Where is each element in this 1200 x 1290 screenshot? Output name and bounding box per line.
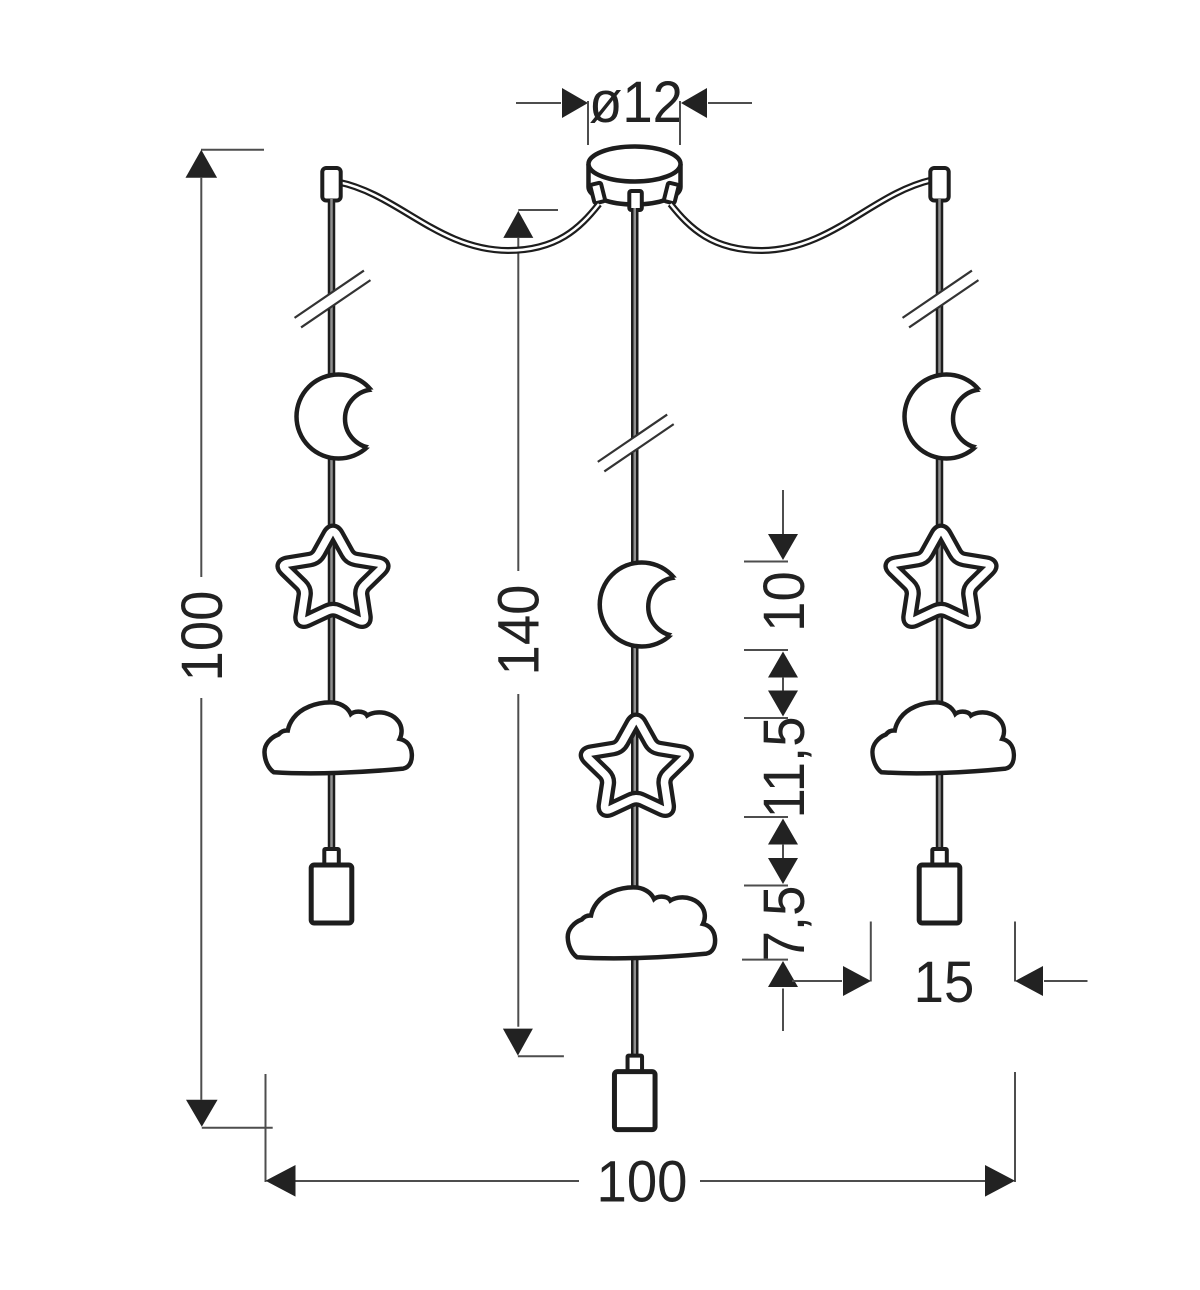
center pendant socket body: [614, 1072, 655, 1130]
dimension 11,5 tick top: [744, 717, 788, 719]
left pendant socket neck: [324, 849, 339, 865]
right pendant moon: [905, 375, 1012, 459]
left pendant socket body: [311, 865, 352, 923]
dimension 11,5 arrow bottom: [768, 819, 798, 845]
dimension 100 left arrow top: [186, 150, 218, 178]
right pendant star: [892, 531, 991, 621]
dimension 100 bottom extension line left: [265, 1074, 267, 1182]
dimension 140 arrow top: [503, 211, 533, 238]
dimension 100 left line lower: [200, 698, 202, 1100]
dimension 100 left arrow bottom: [186, 1100, 218, 1127]
dimension 100 bottom arrow left: [266, 1165, 296, 1197]
canopy center tube: [629, 191, 642, 210]
svg-text:ø12: ø12: [589, 69, 683, 134]
svg-text:11,5: 11,5: [751, 716, 816, 818]
dimension ø12 extension line left: [587, 101, 589, 145]
dimension 100 left tick bottom: [202, 1127, 273, 1129]
dimension 100 bottom text: [597, 1149, 688, 1214]
dimension 15 extension line right: [1014, 922, 1016, 982]
dimension ø12 line right: [708, 102, 752, 104]
left suspension wire: [338, 182, 599, 251]
left pendant cable grip: [322, 168, 340, 201]
dimension 100 left text: [169, 591, 234, 682]
dimension 140 tick top: [518, 209, 558, 211]
dimension ø12 text: [589, 69, 683, 134]
dimension chain line mid2: [782, 844, 784, 858]
left pendant cord upper: [328, 199, 336, 309]
dimension ø12 arrow left: [562, 88, 588, 118]
dimension 7,5 arrow top: [768, 858, 798, 884]
dimension 100 bottom line left: [296, 1180, 580, 1182]
svg-text:7,5: 7,5: [751, 886, 816, 962]
dimension 7,5 text: [751, 886, 816, 962]
canopy top ellipse: [589, 147, 681, 182]
svg-text:100: 100: [597, 1149, 688, 1214]
dimension ø12 arrow right: [681, 88, 707, 118]
center pendant star: [587, 720, 686, 810]
center pendant moon: [600, 563, 707, 647]
left pendant cloud: [264, 702, 411, 773]
center pendant socket neck: [628, 1056, 643, 1072]
dimension chain line mid1: [782, 677, 784, 691]
right pendant cord upper: [936, 199, 944, 309]
svg-text:100: 100: [169, 591, 234, 682]
dimension 140 text: [486, 585, 551, 676]
dimension 15 line right: [1044, 980, 1088, 982]
dimension 100 left line upper: [200, 178, 202, 577]
svg-text:15: 15: [914, 949, 975, 1014]
dimension 15 line left: [792, 980, 842, 982]
dimension chain line top: [782, 490, 784, 534]
dimension 7,5 arrow bottom: [768, 961, 798, 987]
dimension 10 tick top: [744, 561, 788, 563]
dimension 11,5 arrow top: [768, 691, 798, 717]
center pendant cloud: [568, 887, 715, 958]
dimension 11,5 text: [751, 716, 816, 818]
right pendant socket body: [919, 865, 960, 923]
right pendant socket neck: [932, 849, 947, 865]
svg-text:10: 10: [751, 571, 816, 632]
dimension 15 extension line left: [870, 922, 872, 982]
dimension ø12 line left: [516, 102, 561, 104]
left pendant moon: [297, 375, 404, 459]
dimension 15 arrow left: [843, 966, 871, 996]
dimension 140 line upper: [517, 238, 519, 571]
dimension ø12 extension line right: [679, 101, 681, 145]
right pendant cable grip: [930, 168, 948, 201]
dimension 140 arrow bottom: [503, 1029, 533, 1056]
dimension 140 line lower: [517, 694, 519, 1027]
right pendant cord mid: [936, 309, 944, 853]
right suspension wire: [671, 180, 932, 251]
right pendant cord break symbol: [903, 271, 979, 328]
dimension 11,5 tick bottom: [744, 816, 788, 818]
canopy left tube: [590, 182, 605, 203]
right pendant cloud: [872, 702, 1013, 773]
dimension 15 arrow right: [1015, 966, 1043, 996]
dimension 7,5 tick top: [744, 885, 788, 887]
svg-text:140: 140: [486, 585, 551, 676]
canopy right tube: [664, 182, 679, 203]
dimension 7,5 tick bottom: [742, 959, 788, 961]
dimension 10 tick bottom: [744, 649, 788, 651]
dimension 100 bottom arrow right: [985, 1165, 1015, 1197]
dimension 100 bottom extension line right: [1014, 1072, 1016, 1182]
dimension 15 text: [914, 949, 975, 1014]
canopy body: [589, 164, 681, 205]
center pendant cord break symbol: [598, 415, 674, 472]
left pendant cord break symbol: [295, 271, 371, 328]
dimension 140 tick bottom: [518, 1055, 564, 1057]
dimension chain line bottom: [782, 989, 784, 1032]
left pendant cord mid: [328, 309, 336, 853]
center pendant cord mid: [631, 453, 639, 1060]
dimension 100 bottom line right: [700, 1180, 985, 1182]
dimension 10 text: [751, 571, 816, 632]
center pendant cord upper: [631, 208, 639, 453]
left pendant star: [284, 531, 383, 621]
dimension 100 left tick top: [201, 149, 264, 151]
dimension 10 arrow bottom: [768, 652, 798, 678]
dimension 10 arrow top: [768, 534, 798, 560]
